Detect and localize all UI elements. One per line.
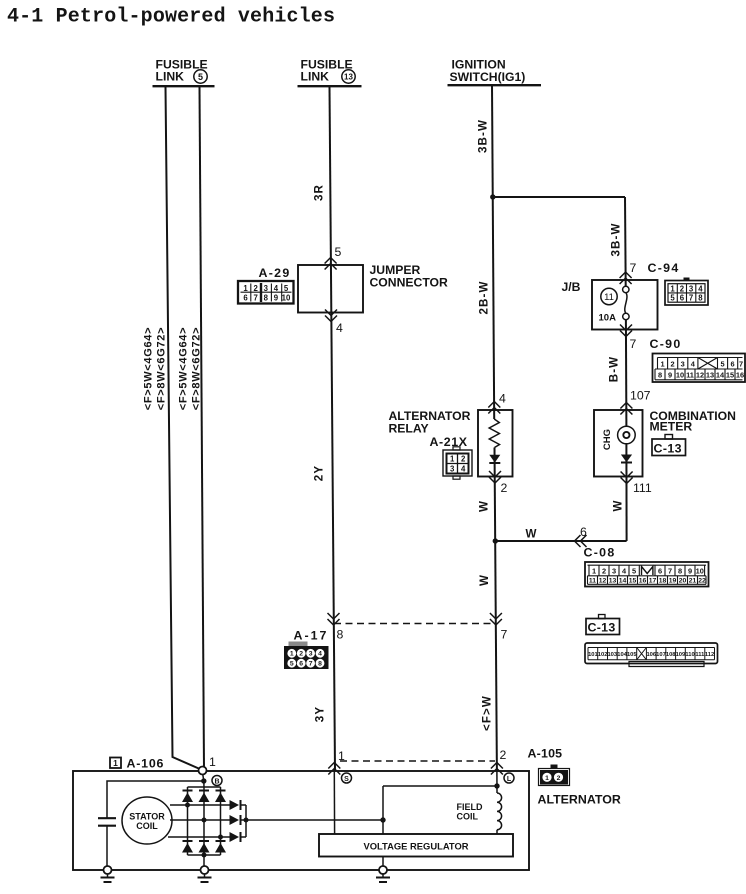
svg-text:A-106: A-106 (127, 757, 165, 771)
svg-text:2: 2 (254, 284, 259, 293)
svg-text:LINK: LINK (301, 70, 330, 84)
svg-text:1: 1 (670, 284, 675, 293)
svg-text:2: 2 (299, 651, 303, 658)
wire right branch vertical upper (624, 197, 627, 287)
svg-text:6: 6 (680, 293, 685, 302)
trio diode 2 (230, 815, 247, 825)
svg-text:1: 1 (338, 749, 345, 763)
svg-text:3B-W: 3B-W (610, 222, 623, 256)
connector chevron A-17 left (328, 613, 340, 625)
svg-text:6: 6 (299, 661, 303, 668)
wire fusible link 5 left line (166, 87, 202, 770)
svg-text:<F>W: <F>W (481, 695, 494, 731)
svg-text:7: 7 (501, 628, 508, 642)
svg-text:105: 105 (627, 652, 637, 658)
svg-text:15: 15 (726, 371, 734, 380)
svg-text:14: 14 (619, 578, 627, 585)
node bridge bottom (202, 853, 207, 858)
A-106 terminal label (110, 757, 164, 771)
svg-text:4: 4 (691, 359, 696, 368)
svg-text:15: 15 (629, 578, 637, 585)
connector chevron A-29 bottom (325, 310, 337, 322)
svg-text:13: 13 (344, 73, 353, 82)
junction block J/B box (592, 280, 658, 330)
svg-text:<F>8W<6G72>: <F>8W<6G72> (191, 327, 203, 411)
node IG junction dot (490, 194, 495, 199)
svg-text:2B-W: 2B-W (478, 280, 491, 314)
connector chevron alternator L (491, 763, 503, 775)
connector pinout A-29 (238, 281, 294, 304)
stator coil (122, 797, 172, 844)
connector chevron meter top (620, 403, 632, 415)
svg-text:C-90: C-90 (650, 337, 682, 351)
C-13 boxed label upper (652, 435, 686, 456)
svg-text:10A: 10A (599, 313, 617, 324)
resistor in relay (489, 419, 499, 448)
svg-text:STATOR: STATOR (129, 812, 165, 822)
bridge diode top 2 (199, 791, 210, 803)
svg-text:5: 5 (284, 284, 289, 293)
svg-text:C-94: C-94 (648, 261, 680, 275)
svg-text:5: 5 (720, 359, 724, 368)
connector chevron meter bottom (621, 472, 633, 484)
svg-text:2: 2 (461, 455, 466, 464)
svg-text:C-08: C-08 (584, 546, 616, 560)
svg-text:L: L (507, 776, 512, 783)
svg-text:A-29: A-29 (259, 266, 291, 280)
dashed line A-105/A-106 (340, 760, 495, 762)
connector pinout C-94 (665, 278, 708, 306)
svg-text:4: 4 (336, 321, 343, 335)
svg-text:CONNECTOR: CONNECTOR (370, 276, 449, 290)
svg-text:21: 21 (689, 578, 697, 585)
svg-text:20: 20 (679, 578, 687, 585)
svg-text:19: 19 (669, 578, 677, 585)
node W junction dot (493, 538, 498, 543)
wire L into box (496, 771, 498, 793)
svg-text:11: 11 (686, 371, 694, 380)
svg-text:16: 16 (736, 371, 744, 380)
FIELD COIL label (457, 802, 483, 822)
svg-text:W: W (478, 500, 491, 512)
wire field feed vertical (382, 786, 384, 834)
svg-text:6: 6 (658, 567, 662, 576)
svg-text:4-1 Petrol-powered vehicles: 4-1 Petrol-powered vehicles (7, 6, 335, 29)
wire fusible link 5 right line (200, 87, 205, 770)
wire meter lamp to diode (625, 444, 627, 542)
wire ignition switch 3B-W upper (492, 85, 494, 419)
svg-text:10: 10 (282, 293, 291, 302)
wire branch horizontal at node IG (493, 196, 625, 198)
svg-text:3: 3 (309, 651, 313, 658)
svg-text:1: 1 (290, 651, 294, 658)
jumper connector A-29 box (298, 265, 363, 313)
svg-text:10: 10 (696, 567, 704, 576)
voltage regulator box (319, 834, 513, 857)
svg-text:8: 8 (698, 293, 703, 302)
C-13 boxed label lower (586, 615, 620, 635)
diode in meter (621, 455, 632, 463)
connector chevron A-29 top (325, 258, 337, 270)
svg-text:3: 3 (450, 465, 455, 474)
circled L (504, 773, 514, 783)
node phase 3 (218, 835, 223, 840)
svg-text:2: 2 (602, 567, 606, 576)
svg-text:11: 11 (589, 578, 596, 585)
svg-text:3: 3 (681, 359, 685, 368)
svg-text:4: 4 (318, 651, 322, 658)
svg-text:18: 18 (659, 578, 667, 585)
svg-text:5: 5 (198, 72, 203, 82)
svg-text:3: 3 (264, 284, 269, 293)
ignition switch (IG1) header (448, 58, 542, 86)
svg-text:4: 4 (622, 567, 627, 576)
svg-text:2: 2 (500, 748, 507, 762)
svg-text:CHG: CHG (602, 429, 613, 450)
connector chevron J/B top (620, 272, 632, 284)
svg-text:16: 16 (639, 578, 647, 585)
svg-text:110: 110 (685, 652, 694, 658)
svg-text:13: 13 (609, 578, 617, 585)
connector pinout C-13 strip (585, 643, 718, 667)
svg-text:8: 8 (678, 567, 682, 576)
dashed line A-17 (334, 623, 496, 625)
svg-text:2: 2 (680, 284, 685, 293)
ALTERNATOR RELAY label (389, 409, 471, 436)
svg-text:A-21X: A-21X (430, 435, 468, 449)
bridge diode top 1 (182, 791, 193, 803)
svg-text:COIL: COIL (457, 812, 479, 822)
svg-text:2Y: 2Y (313, 465, 326, 481)
connector chevron J/B bottom (620, 325, 632, 337)
trio diode 1 (230, 800, 247, 810)
circled B (212, 776, 222, 786)
wire trio output to regulator (246, 819, 383, 821)
svg-text:2: 2 (557, 775, 561, 782)
svg-text:107: 107 (630, 389, 651, 403)
svg-text:7: 7 (254, 293, 258, 302)
node L junction (494, 783, 499, 788)
svg-text:12: 12 (599, 578, 607, 585)
svg-text:A-105: A-105 (528, 747, 563, 761)
svg-text:1: 1 (592, 567, 596, 576)
fusible link 5 header (153, 58, 215, 87)
svg-text:14: 14 (716, 371, 725, 380)
svg-text:<F>5W<4G64>: <F>5W<4G64> (178, 327, 190, 411)
svg-text:3: 3 (612, 567, 616, 576)
ground terminal bridge (198, 866, 212, 882)
svg-text:102: 102 (598, 652, 608, 658)
svg-text:4: 4 (274, 284, 279, 293)
svg-text:LINK: LINK (156, 70, 185, 84)
svg-text:1: 1 (113, 758, 118, 768)
svg-text:112: 112 (705, 652, 714, 658)
node phase 2 (202, 818, 207, 823)
svg-text:12: 12 (696, 371, 704, 380)
node B junction (201, 775, 206, 788)
svg-text:7: 7 (630, 261, 637, 275)
combination meter box (594, 410, 643, 477)
wire horizontal W to node at x495 (495, 540, 626, 542)
COMBINATION METER label (650, 409, 736, 434)
connector pinout A-105 (539, 765, 570, 786)
wire B to capacitor (107, 781, 204, 818)
svg-text:W: W (612, 499, 625, 511)
svg-text:1: 1 (450, 455, 455, 464)
svg-text:5: 5 (670, 293, 675, 302)
svg-text:8: 8 (264, 293, 269, 302)
fusible link 13 header (298, 58, 362, 87)
node phase 1 (185, 803, 190, 808)
svg-text:SWITCH(IG1): SWITCH(IG1) (450, 70, 526, 84)
svg-text:COIL: COIL (136, 821, 158, 831)
svg-text:1: 1 (209, 755, 216, 769)
svg-text:1: 1 (243, 284, 248, 293)
svg-text:10: 10 (676, 371, 684, 380)
svg-text:13: 13 (706, 371, 714, 380)
rectifier bridge frame (188, 787, 221, 866)
connector pinout C-08 (585, 562, 709, 587)
wire field feed horizontal (383, 785, 497, 787)
svg-text:J/B: J/B (562, 280, 581, 294)
svg-text:8: 8 (337, 628, 344, 642)
svg-text:111: 111 (695, 652, 705, 658)
svg-text:C-13: C-13 (654, 441, 682, 455)
svg-text:6: 6 (580, 525, 587, 539)
svg-text:9: 9 (274, 293, 279, 302)
bridge diode bottom 2 (199, 841, 210, 853)
field coil (497, 793, 502, 834)
trio diode 3 (230, 832, 247, 842)
svg-text:7: 7 (739, 359, 743, 368)
JUMPER CONNECTOR label (370, 263, 449, 290)
trio output bus (245, 805, 247, 837)
svg-text:5: 5 (290, 661, 294, 668)
svg-text:3R: 3R (313, 184, 326, 201)
connector pinout A-17 (284, 642, 329, 670)
svg-text:3: 3 (689, 284, 694, 293)
svg-text:3B-W: 3B-W (477, 119, 490, 153)
svg-text:1: 1 (545, 775, 549, 782)
node trio bus (244, 818, 249, 823)
fuse number circle 11 (601, 288, 617, 304)
connector pinout C-90 (653, 354, 746, 383)
svg-text:W: W (525, 528, 537, 541)
svg-text:107: 107 (656, 652, 666, 658)
svg-text:6: 6 (731, 359, 735, 368)
ground terminal capacitor (101, 866, 115, 882)
connector chevron alternator S (328, 763, 340, 775)
svg-text:9: 9 (668, 371, 672, 380)
svg-text:7: 7 (630, 337, 637, 351)
connector chevron relay top (488, 402, 500, 414)
wire fusible link 13 / 3R-2Y-3Y line (330, 87, 336, 771)
svg-text:3Y: 3Y (314, 706, 327, 722)
wire ignition lower W / F-W (495, 448, 497, 772)
svg-text:RELAY: RELAY (389, 422, 429, 436)
svg-text:S: S (344, 776, 349, 783)
svg-text:5: 5 (335, 245, 342, 259)
connector chevron relay bottom (489, 471, 501, 483)
bridge diode top 3 (215, 791, 226, 803)
svg-text:ALTERNATOR: ALTERNATOR (538, 793, 621, 807)
svg-text:22: 22 (698, 578, 706, 585)
svg-text:11: 11 (604, 292, 614, 303)
wire regulator to ground (382, 857, 384, 867)
ground terminal regulator (376, 866, 390, 882)
svg-text:A-17: A-17 (294, 629, 329, 643)
svg-text:7: 7 (668, 567, 672, 576)
svg-text:4: 4 (698, 284, 703, 293)
bridge diode bottom 1 (182, 841, 193, 853)
terminal circle A-106 (199, 767, 207, 775)
svg-text:7: 7 (309, 661, 313, 668)
svg-text:<F>5W<4G64>: <F>5W<4G64> (143, 327, 155, 411)
circled S (342, 773, 352, 783)
svg-text:<F>8W<6G72>: <F>8W<6G72> (156, 327, 168, 411)
svg-text:B-W: B-W (608, 356, 621, 382)
fuse 10A symbol (623, 286, 630, 319)
connector chevron A-17 right (490, 613, 502, 625)
wire S to regulator (333, 771, 335, 834)
svg-text:1: 1 (660, 359, 664, 368)
svg-text:5: 5 (632, 567, 636, 576)
alternator box (73, 771, 529, 870)
svg-text:4: 4 (499, 392, 506, 406)
svg-text:C-13: C-13 (588, 621, 616, 635)
svg-text:VOLTAGE REGULATOR: VOLTAGE REGULATOR (363, 841, 468, 852)
svg-text:8: 8 (658, 371, 662, 380)
connector pinout A-21X (443, 447, 472, 479)
diode in relay (489, 455, 500, 463)
node regulator input (380, 817, 385, 822)
capacitor (98, 818, 116, 866)
stator phase wires (168, 805, 230, 837)
wire right branch fuse to meter (625, 320, 628, 427)
svg-text:FIELD: FIELD (457, 802, 483, 812)
connector chevron C-08 (575, 535, 587, 547)
svg-text:B: B (214, 779, 219, 786)
svg-text:6: 6 (243, 293, 248, 302)
svg-text:17: 17 (649, 578, 657, 585)
svg-text:7: 7 (689, 293, 693, 302)
alternator relay box (478, 410, 513, 477)
charge lamp (618, 426, 636, 444)
bridge diode bottom 3 (215, 841, 226, 853)
svg-text:2: 2 (671, 359, 675, 368)
svg-text:9: 9 (688, 567, 692, 576)
svg-text:111: 111 (633, 481, 652, 495)
svg-text:8: 8 (318, 661, 322, 668)
svg-text:4: 4 (461, 465, 466, 474)
svg-text:2: 2 (501, 481, 508, 495)
svg-text:W: W (478, 574, 491, 586)
svg-text:METER: METER (650, 420, 693, 434)
